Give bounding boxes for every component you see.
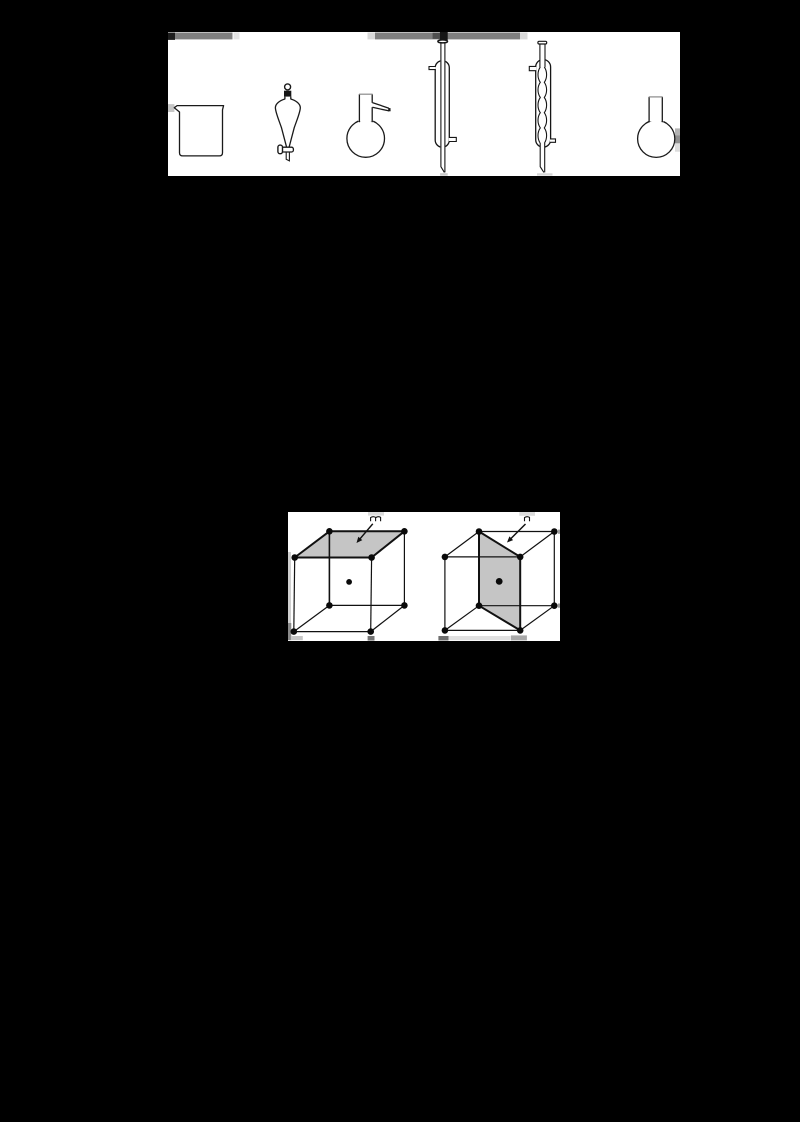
figure panel: laboratory glassware: [168, 32, 680, 176]
round-bottom flask: [638, 90, 675, 157]
left unit cell: [294, 531, 405, 631]
label m with arrow: [357, 517, 381, 543]
figure panel: unit cells: [288, 512, 560, 641]
scan bar artifacts: [168, 33, 680, 152]
label n with arrow: [507, 517, 530, 543]
distillation flask: [347, 87, 390, 157]
beaker: [174, 106, 223, 156]
Allihn condenser: [529, 41, 555, 175]
separatory funnel: [275, 84, 300, 161]
artifacts: [288, 512, 560, 641]
Liebig condenser: [429, 32, 456, 176]
right unit cell: [445, 532, 554, 631]
